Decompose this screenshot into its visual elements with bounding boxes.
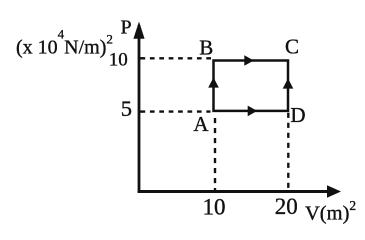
dashed line V=20 below D — [287, 113, 289, 190]
svg-text:(x 104N/m)2: (x 104N/m)2 — [16, 27, 113, 59]
svg-text:V(m)2: V(m)2 — [305, 198, 356, 225]
arrow D to C (up, right edge) — [283, 78, 294, 88]
dashed line V=10 below A — [214, 118, 216, 190]
svg-text:D: D — [290, 103, 305, 127]
svg-text:10: 10 — [109, 50, 128, 71]
x-axis arrowhead — [327, 185, 341, 198]
svg-text:5: 5 — [121, 96, 132, 121]
tick P=5 — [139, 111, 144, 113]
y-axis P — [138, 25, 141, 193]
y-axis arrowhead — [133, 22, 144, 39]
arrow A to B (up, left edge) — [208, 77, 219, 87]
tick P=10 — [139, 57, 144, 59]
arrow A to D (right, bottom edge) — [248, 106, 258, 117]
rectangle ABCD process loop — [214, 61, 289, 111]
svg-text:20: 20 — [275, 194, 298, 219]
svg-text:P: P — [121, 17, 132, 39]
arrow B to C (right, top edge) — [244, 55, 254, 66]
dashed line P=10 to B — [141, 57, 212, 59]
svg-text:10: 10 — [203, 195, 226, 220]
svg-text:A: A — [193, 112, 209, 136]
svg-text:C: C — [285, 35, 299, 59]
x-axis V — [138, 190, 329, 193]
svg-text:B: B — [199, 36, 213, 60]
dashed line P=5 to A — [141, 110, 211, 112]
